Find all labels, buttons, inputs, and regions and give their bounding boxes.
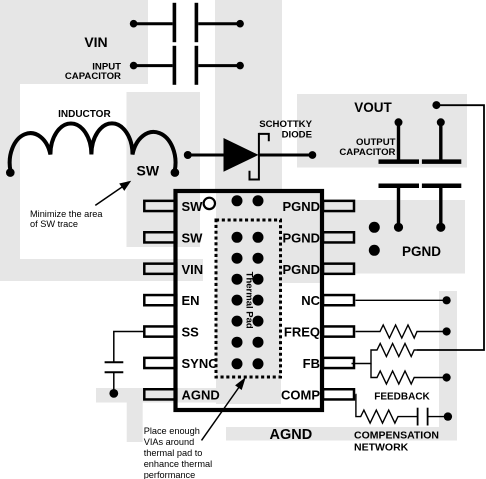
svg-text:AGND: AGND [270,427,313,443]
svg-text:VIN: VIN [84,34,107,50]
pin EN stub [144,295,176,305]
wire SS pin to C5 [114,332,144,363]
pin stubs right [323,201,354,400]
svg-text:CAPACITOR: CAPACITOR [65,71,121,82]
via PGND 1 [369,222,380,233]
svg-text:CAPACITOR: CAPACITOR [339,147,395,158]
net VOUT copper pour [297,94,467,168]
net PGND copper pour right [281,190,465,283]
node FB divider [443,373,451,381]
inductor L1 [10,123,176,171]
thermal pad copper column inside IC [216,189,281,404]
annotation place enough VIAs [144,426,212,479]
capacitor C3 output left [379,118,420,232]
wire VOUT to feedback divider [417,105,484,350]
wire NC to ground strip [356,299,447,301]
svg-text:SW: SW [182,199,204,214]
node diode cathode [309,151,317,159]
wire diode cathode to VOUT pour [259,154,313,157]
pin NC stub [323,295,354,305]
arrow to SW trace [95,181,131,206]
pin FREQ stub [323,326,354,336]
svg-text:PGND: PGND [282,262,320,277]
svg-text:enhance thermal: enhance thermal [144,459,212,469]
net VIN copper column center [215,0,282,190]
via PGND 2 [369,245,380,256]
resistor R2 FB upper [352,344,418,364]
net VIN copper pour top-left [0,0,203,281]
svg-text:FB: FB [303,356,320,371]
svg-text:Place enough: Place enough [144,426,200,436]
node SS cap to AGND [109,389,118,398]
svg-text:SW: SW [182,230,204,245]
vias thermal pad column left [232,195,243,369]
pin PGND 1 stub [323,201,354,211]
svg-text:thermal pad to: thermal pad to [144,448,203,458]
svg-text:DIODE: DIODE [282,129,313,140]
pin PGND 2 stub [323,232,354,242]
svg-text:VIAs around: VIAs around [144,437,195,447]
svg-text:PGND: PGND [282,199,320,214]
net AGND copper strip down [127,402,143,442]
node diode anode [184,151,192,159]
node VOUT junction [432,101,440,109]
resistor R3 FB lower [371,364,447,385]
svg-text:NETWORK: NETWORK [354,442,409,454]
node SW inductor right end [171,168,180,177]
arrow to thermal pad [202,377,246,440]
capacitor C2 input bottom [130,46,244,85]
net AGND copper band left [96,388,281,403]
node COMP network [444,412,452,420]
pin AGND stub [144,389,176,399]
net GND copper strip right [439,291,457,441]
svg-text:Minimize the area: Minimize the area [30,209,103,219]
svg-text:COMPENSATION: COMPENSATION [354,430,439,442]
pin stubs left [144,201,176,400]
svg-text:PGND: PGND [282,230,320,245]
node FREQ [443,327,451,335]
svg-text:EN: EN [182,293,200,308]
svg-text:COMP: COMP [281,387,320,402]
diode D1 schottky [224,133,269,181]
svg-text:of SW trace: of SW trace [30,219,78,229]
svg-text:SYNC: SYNC [182,356,219,371]
pin SW 1 stub [144,201,176,211]
op IC U1 body [176,191,323,410]
capacitor C5 soft-start [105,362,124,372]
svg-text:NC: NC [301,293,320,308]
capacitor C4 output right [422,118,461,232]
svg-text:performance: performance [144,470,196,479]
svg-text:SS: SS [182,325,200,340]
wire C5 to AGND pour [113,372,115,393]
resistor R4 COMP [356,395,418,424]
vias thermal pad column right [253,195,264,369]
wire SW node to diode [188,154,225,157]
capacitor C6 COMP [418,408,448,426]
pin FB stub [323,358,354,368]
pin COMP stub [323,389,354,399]
capacitor C1 input top [130,3,244,42]
svg-text:AGND: AGND [182,387,220,402]
svg-text:FREQ: FREQ [284,325,320,340]
node NC [443,296,451,304]
pin SW 2 stub [144,232,176,242]
svg-text:VOUT: VOUT [354,100,392,115]
thermal pad dashed outline [216,220,281,377]
pin SYNC stub [144,358,176,368]
node SW copper pour [127,92,201,247]
svg-text:PGND: PGND [402,244,441,259]
svg-text:INDUCTOR: INDUCTOR [58,109,111,120]
pin VIN stub [144,264,176,274]
svg-text:FEEDBACK: FEEDBACK [374,392,430,403]
svg-text:VIN: VIN [182,262,204,277]
svg-text:SW: SW [137,163,160,179]
node inductor left end [6,168,15,177]
pin PGND 3 stub [323,264,354,274]
pin 1 marker circle [204,198,215,209]
pin SS stub [144,326,176,336]
resistor R1 FREQ [356,325,447,338]
net AGND copper band bottom [226,427,456,441]
